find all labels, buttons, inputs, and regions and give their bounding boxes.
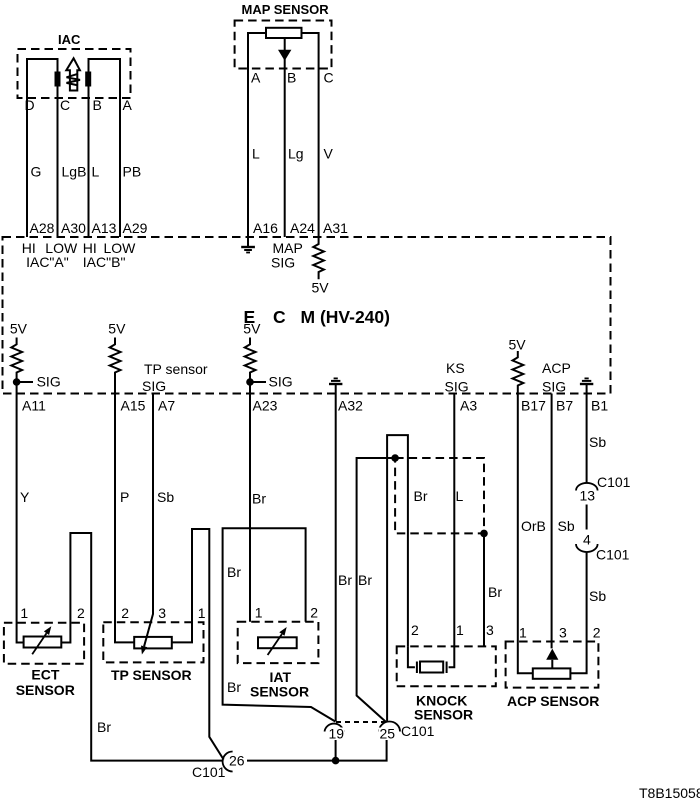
wire A7 to TP pin 3 (wiper) [144,394,153,647]
ground at A16 [241,237,255,253]
connector C101-26 arc [223,752,233,772]
svg-text:T8B15058: T8B15058 [639,785,700,801]
svg-text:SENSOR: SENSOR [250,684,309,700]
wire below C101-25 [336,733,387,761]
IAT thermistor body [258,637,297,648]
svg-text:C101: C101 [596,547,630,563]
svg-text:IAC: IAC [58,32,81,47]
svg-text:4: 4 [583,532,591,548]
junction dot A11 [13,378,21,386]
resistor at A23 [245,338,256,394]
wire MAP pin C [302,33,319,237]
IAT SENSOR dashed box [238,622,319,663]
svg-text:ECT: ECT [31,667,59,683]
knock pin 2 lead [408,646,415,667]
svg-text:SENSOR: SENSOR [16,682,75,698]
ACP wiper arrow [546,649,558,660]
svg-text:G: G [31,164,42,180]
svg-text:2: 2 [310,605,318,621]
junction dot A23 [246,378,254,386]
svg-text:TP SENSOR: TP SENSOR [111,667,192,683]
IAC dashed box [18,49,131,98]
svg-text:Sb: Sb [558,518,575,534]
ECT SENSOR dashed box [4,623,84,664]
svg-text:B: B [93,97,102,113]
svg-text:LgB: LgB [62,164,87,180]
svg-text:SENSOR: SENSOR [414,707,473,723]
svg-text:C: C [324,70,334,86]
svg-text:Sb: Sb [589,588,606,604]
svg-text:19: 19 [329,726,345,742]
svg-text:L: L [456,488,464,504]
IAC pintle arrow symbol [66,58,80,90]
svg-text:Lg: Lg [288,146,304,162]
svg-text:A11: A11 [22,398,46,414]
KNOCK SENSOR dashed box [397,646,496,686]
svg-text:3: 3 [158,605,166,621]
svg-text:SIG: SIG [271,255,295,271]
svg-text:Br: Br [338,572,352,588]
svg-text:B17: B17 [521,398,546,414]
TP SENSOR dashed box [103,622,203,662]
svg-text:3: 3 [559,625,567,641]
wire ECT pin 2 loop to C101-26 [61,533,223,761]
connector C101-25 arc [379,722,400,732]
svg-text:IAC"A": IAC"A" [26,254,69,270]
svg-text:OrB: OrB [521,518,546,534]
svg-text:P: P [120,489,129,505]
svg-text:Sb: Sb [589,434,606,450]
ACP potentiometer body [533,668,571,678]
wire IAT pin 2 loop to C101-19 [223,528,336,721]
svg-text:A23: A23 [253,398,278,414]
wire A23 to IAT pin 1 [249,394,251,622]
svg-text:1: 1 [519,625,527,641]
resistor at B17 [513,351,524,394]
svg-text:C101: C101 [597,474,631,490]
svg-text:1: 1 [255,605,263,621]
svg-text:Br: Br [227,679,241,695]
svg-text:Br: Br [227,564,241,580]
wire B7 to ACP pin 3 [551,394,553,649]
junction dot shield bottom [480,530,488,538]
MAP wiper arrow [278,50,291,61]
svg-text:Y: Y [20,489,30,505]
svg-text:3: 3 [486,622,494,638]
svg-text:D: D [25,97,35,113]
wire shield to knock pin 3 [483,533,485,646]
svg-text:A7: A7 [158,398,175,414]
svg-text:SIG: SIG [37,374,61,390]
svg-text:ACP: ACP [542,360,571,376]
wire A15 to TP pin 2 [115,394,134,643]
IAC coil A loop wire (pins D-C) [27,59,58,237]
svg-text:5V: 5V [10,321,28,337]
resistor at A15 [110,338,121,394]
svg-text:C101: C101 [192,764,226,780]
label 25 [379,728,396,741]
svg-text:5V: 5V [243,321,261,337]
wire below C101-19 [335,733,337,761]
svg-text:MAP SENSOR: MAP SENSOR [242,2,330,17]
svg-text:A28: A28 [30,220,55,236]
svg-text:2: 2 [593,625,601,641]
svg-text:5V: 5V [312,280,330,296]
ECM dashed box [3,237,611,394]
connector C101-4 arc [576,544,598,552]
svg-text:Br: Br [252,491,266,507]
svg-text:2: 2 [411,622,419,638]
svg-text:Br: Br [97,719,111,735]
svg-text:B1: B1 [591,398,608,414]
svg-text:5V: 5V [108,321,126,337]
wire B1 upper segment [586,394,588,483]
svg-text:1: 1 [198,605,206,621]
knock piezo left plate [416,662,418,674]
svg-text:L: L [92,164,100,180]
svg-text:A29: A29 [123,220,148,236]
svg-text:SIG: SIG [269,374,293,390]
wire MAP pin A [248,33,266,237]
ECT thermistor body [24,637,62,648]
svg-text:Br: Br [414,488,428,504]
junction dot shield top [391,454,399,462]
svg-text:2: 2 [77,605,85,621]
shield dashed box [395,458,484,533]
svg-text:A3: A3 [460,398,477,414]
connector C101-13 arc [576,483,598,491]
svg-text:1: 1 [456,622,464,638]
svg-text:SIG: SIG [142,378,166,394]
knock piezo right plate [446,662,448,674]
resistor at A31 [313,237,324,279]
svg-text:26: 26 [229,753,245,769]
wire MAP pin B [284,38,286,237]
svg-text:L: L [252,146,260,162]
svg-text:1: 1 [20,605,28,621]
svg-text:Br: Br [488,584,502,600]
internal ground at B1 [580,378,593,393]
MAP sensor resistor body [266,28,302,38]
connector C101-19 arc [325,724,344,732]
svg-text:5V: 5V [509,337,527,353]
ACP SENSOR dashed box [506,642,599,688]
MAP SENSOR dashed box [235,21,332,69]
svg-text:A: A [251,70,261,86]
wire B1 lower segment to ACP pin 2 [570,552,586,673]
svg-text:C: C [60,97,70,113]
wire TP pin 1 loop to C101-26 [172,529,224,760]
svg-text:SIG: SIG [542,379,566,395]
svg-text:KS: KS [446,360,465,376]
svg-text:PB: PB [123,164,142,180]
svg-text:SIG: SIG [445,379,469,395]
ACP wiper stem [551,660,553,669]
resistor at A11 [11,338,22,394]
wire C101-26 right segment [247,760,336,762]
svg-text:A32: A32 [338,398,363,414]
svg-text:C101: C101 [401,723,435,739]
svg-text:B: B [287,70,296,86]
junction dot ground bus [332,757,340,765]
SIG lead A23 [250,381,266,383]
wire B17 to ACP pin 1 [518,394,533,674]
svg-text:A: A [123,97,133,113]
TP potentiometer body [134,637,172,649]
TP wiper arrowhead [141,646,147,655]
svg-text:IAC"B": IAC"B" [83,254,126,270]
svg-text:ACP SENSOR: ACP SENSOR [507,693,599,709]
C101 dashed link 19-25 [336,721,388,723]
internal ground at A32 [329,378,342,393]
wire A32 to C101-19 [335,394,337,722]
wire knock pin 2 loop to C101-25 [387,435,408,721]
knock pin 1 lead [449,646,455,667]
svg-text:2: 2 [121,605,129,621]
svg-text:A13: A13 [92,220,117,236]
knock element body [420,662,443,673]
wire A11 to ECT pin 1 [17,394,24,643]
svg-text:A15: A15 [121,398,146,414]
svg-text:Sb: Sb [157,489,174,505]
svg-text:A31: A31 [323,220,348,236]
IAC coil B loop wire (pins B-A) [89,59,121,237]
svg-text:25: 25 [380,726,396,742]
svg-text:B7: B7 [556,398,573,414]
svg-text:TP sensor: TP sensor [144,361,208,377]
svg-text:A30: A30 [61,220,86,236]
wire B1 middle segment [586,505,588,530]
svg-text:A24: A24 [290,220,315,236]
SIG lead A11 [17,381,33,383]
label 19 [328,728,345,741]
IAT thermistor arrow [268,634,282,655]
IAC coil A body [55,72,61,87]
ECT thermistor arrow [32,633,46,654]
svg-text:V: V [324,146,334,162]
IAC coil B body [85,72,91,87]
shield drain wire to C101-25 [357,458,396,722]
wire A3 to knock pin 1 [453,394,455,647]
svg-text:Br: Br [358,572,372,588]
svg-text:A16: A16 [253,220,278,236]
svg-text:13: 13 [580,488,596,504]
